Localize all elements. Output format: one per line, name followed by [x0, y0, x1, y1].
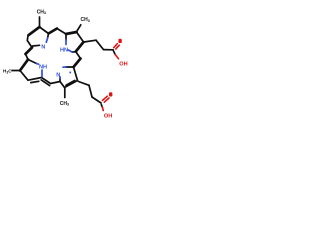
svg-text:CH3: CH3: [37, 9, 46, 15]
svg-text:H3C: H3C: [3, 69, 12, 75]
svg-text:CH3: CH3: [81, 17, 90, 23]
svg-text:CH3: CH3: [60, 101, 69, 107]
svg-text:HN: HN: [60, 48, 68, 54]
svg-text:NH: NH: [39, 65, 47, 71]
svg-text:OH: OH: [119, 62, 127, 68]
svg-text:N: N: [56, 72, 60, 78]
svg-text:OH: OH: [104, 114, 112, 120]
svg-text:N: N: [41, 45, 45, 51]
